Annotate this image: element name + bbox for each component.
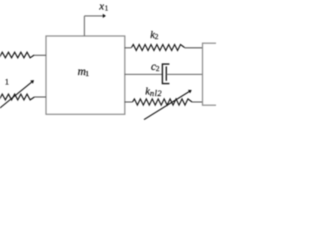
node x1 marker vertical wire [83,16,85,36]
wire spring k_nl2 to wall [192,101,203,103]
svg-text:nl2: nl2 [150,89,162,98]
nonlinear spring k_nl1 (left bottom, cropped) [0,94,34,100]
variable arrow of k_nl2 [144,91,191,120]
svg-text:2: 2 [155,32,159,41]
wire spring k2 to wall [185,47,203,49]
wire spring k_nl1 to mass [34,96,46,98]
svg-text:1: 1 [105,4,109,13]
wall block (right, cropped) [203,43,219,105]
svg-text:1: 1 [5,77,9,87]
nonlinear spring k_nl2 (right bottom) [125,101,133,103]
variable arrow of k_nl1 [0,81,33,110]
mass m1 [46,36,125,114]
spring k1 (left top, cropped at left edge) [0,52,34,58]
svg-text:2: 2 [156,64,160,73]
damper c2 piston [165,66,167,80]
spring k2 (right top) [125,47,132,49]
damper c2 rod left [125,73,164,75]
wire spring k1 to mass [34,54,46,56]
svg-text:x: x [98,0,104,12]
damper c2 rod right [166,73,202,75]
damper c2 cylinder [162,64,169,84]
svg-text:1: 1 [85,69,89,78]
coordinate arrow x1 [84,15,104,17]
